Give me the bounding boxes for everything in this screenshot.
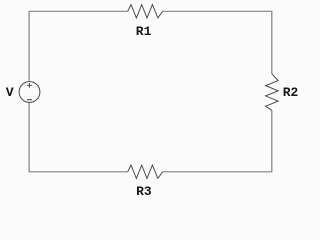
voltage source plus sign	[27, 83, 32, 88]
resistor R2	[266, 74, 279, 111]
svg-text:V: V	[6, 85, 14, 100]
voltage source V (circle body)	[19, 82, 40, 103]
svg-text:R3: R3	[136, 184, 152, 199]
voltage source minus sign	[27, 99, 32, 101]
wire left-top segment (circle top to top-left corner to R1 left lead)	[29, 11, 128, 81]
resistor R3	[128, 165, 163, 178]
resistor R1	[128, 5, 163, 18]
wire right-bottom segment (R2 bottom lead to bottom-right corner to R3 right lead)	[163, 110, 272, 172]
svg-text:R2: R2	[283, 85, 299, 100]
wire bottom-left segment (R3 left lead to bottom-left corner up to circle bottom)	[29, 103, 128, 172]
wire top-right segment (R1 right lead to top-right corner down to R2 top lead)	[163, 11, 272, 73]
svg-text:R1: R1	[136, 24, 152, 39]
